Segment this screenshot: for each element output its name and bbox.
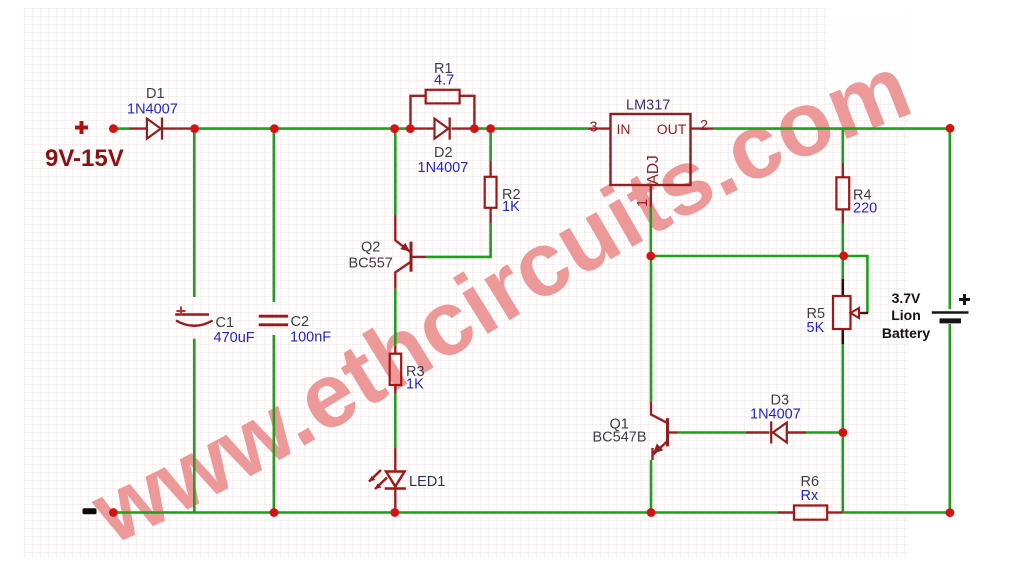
- svg-text:9V-15V: 9V-15V: [45, 145, 124, 172]
- svg-text:1K: 1K: [502, 199, 520, 215]
- svg-text:Q2: Q2: [361, 240, 380, 256]
- svg-text:1N4007: 1N4007: [750, 407, 801, 423]
- svg-text:OUT: OUT: [657, 121, 687, 137]
- svg-text:ADJ: ADJ: [645, 155, 662, 184]
- svg-text:BC557: BC557: [349, 256, 393, 272]
- svg-text:5K: 5K: [807, 320, 825, 336]
- svg-text:1K: 1K: [406, 377, 424, 393]
- svg-text:2: 2: [700, 118, 708, 134]
- svg-text:1: 1: [635, 199, 651, 207]
- svg-text:Rx: Rx: [801, 488, 819, 504]
- svg-text:C1: C1: [216, 315, 235, 331]
- svg-text:1N4007: 1N4007: [127, 102, 178, 118]
- svg-text:100nF: 100nF: [290, 330, 331, 346]
- svg-text:D1: D1: [146, 86, 165, 102]
- svg-text:470uF: 470uF: [214, 330, 255, 346]
- svg-text:IN: IN: [617, 121, 631, 137]
- svg-text:1N4007: 1N4007: [418, 160, 469, 176]
- svg-text:BC547B: BC547B: [593, 430, 647, 446]
- svg-text:220: 220: [853, 201, 877, 217]
- svg-text:LED1: LED1: [409, 474, 445, 490]
- svg-text:C2: C2: [291, 314, 310, 330]
- svg-text:4.7: 4.7: [434, 73, 454, 89]
- svg-text:D2: D2: [434, 145, 453, 161]
- svg-text:3.7V: 3.7V: [892, 290, 921, 306]
- svg-text:LM317: LM317: [626, 98, 670, 114]
- svg-text:Lion: Lion: [891, 307, 921, 323]
- svg-text:3: 3: [590, 120, 598, 136]
- svg-text:Battery: Battery: [882, 325, 930, 341]
